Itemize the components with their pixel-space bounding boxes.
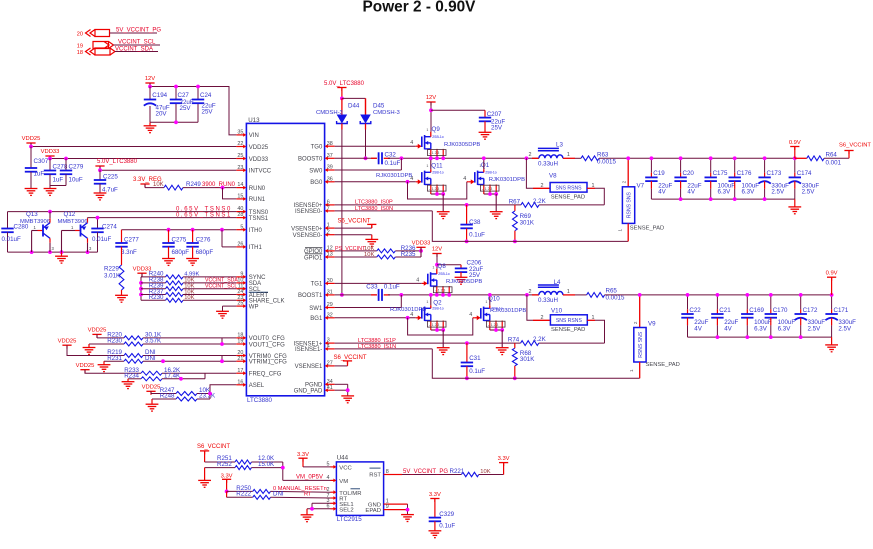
- capacitor C173 330uF 2.5V: [764, 158, 766, 172]
- svg-text:ITH0: ITH0: [249, 228, 263, 234]
- capacitor C176 100uF 6.3V: [734, 158, 736, 172]
- power VDD25 vout cfg: [92, 333, 101, 335]
- wire GND EPAD u44: [388, 503, 408, 505]
- wire PGND GND_PAD: [335, 383, 348, 385]
- net BOOST1 wire: [335, 294, 377, 296]
- svg-text:PS_VCCINT: PS_VCCINT: [335, 246, 366, 252]
- diode D44 CMDSH-3: [337, 98, 348, 129]
- pin 4 VM U44: [331, 479, 335, 481]
- svg-text:1: 1: [618, 229, 623, 232]
- wire vout1 bus: [605, 294, 832, 296]
- svg-text:VDD25: VDD25: [76, 363, 95, 369]
- power 12V input: [145, 82, 154, 84]
- svg-text:2.2K: 2.2K: [533, 336, 547, 343]
- sense resistor V9: [639, 295, 641, 328]
- svg-text:LTC3880: LTC3880: [247, 397, 273, 404]
- svg-text:VTRIM1_CFG: VTRIM1_CFG: [249, 360, 287, 366]
- pin 21 VTRIM1_CFG: [236, 360, 244, 362]
- svg-text:RJK0301DPB: RJK0301DPB: [390, 307, 426, 313]
- inductor L3 0.33uH: [532, 157, 539, 159]
- svg-text:TG0: TG0: [311, 145, 323, 151]
- svg-text:U13: U13: [248, 117, 260, 124]
- ground WP pin: [223, 305, 237, 307]
- svg-text:28: 28: [237, 212, 243, 218]
- svg-text:1uF: 1uF: [53, 177, 64, 184]
- svg-text:SNS RSNS: SNS RSNS: [556, 185, 583, 191]
- resistor R67 2.2K: [521, 203, 539, 208]
- svg-text:C32: C32: [385, 152, 397, 159]
- ground 12V caps: [149, 122, 151, 126]
- svg-text:31: 31: [327, 290, 333, 296]
- svg-text:301K: 301K: [520, 220, 535, 227]
- svg-text:C176: C176: [737, 170, 752, 177]
- net TG1 wire: [335, 282, 422, 284]
- svg-text:C225: C225: [103, 173, 118, 180]
- svg-text:C329: C329: [439, 511, 454, 518]
- pin 20 VTRIM0_CFG: [236, 355, 244, 357]
- svg-text:C21: C21: [719, 307, 731, 314]
- resistor R250: [227, 490, 253, 492]
- capacitor C172 330uF 2.5V: [800, 295, 802, 309]
- svg-text:36: 36: [327, 176, 333, 182]
- svg-text:R252: R252: [217, 461, 232, 468]
- wire D44 to BOOST1: [341, 130, 343, 295]
- pin 29 SW1: [327, 307, 335, 309]
- svg-text:VDD33: VDD33: [41, 149, 60, 155]
- svg-text:SENSE_PAD: SENSE_PAD: [646, 362, 680, 368]
- svg-text:R229: R229: [104, 265, 119, 272]
- capacitor C32 0.1uF: [379, 152, 382, 164]
- svg-text:0.65V_TSNS1: 0.65V_TSNS1: [176, 212, 232, 218]
- resistor R68 301K: [514, 343, 516, 348]
- capacitor C277 3.3nF: [121, 230, 123, 243]
- wire 12V to Q9 drain: [430, 102, 432, 132]
- net TSNS1 wire: [88, 217, 237, 219]
- resistor R251 12.0K: [205, 461, 235, 463]
- svg-text:10uF: 10uF: [69, 177, 83, 184]
- pin 18 VOUT0_CFG: [236, 337, 244, 339]
- svg-text:V9: V9: [648, 321, 656, 328]
- net GPIO0 wire PS_VCCINT: [335, 250, 377, 252]
- svg-text:ASEL: ASEL: [249, 383, 265, 389]
- op-amp U13 LTC3880 box: [246, 123, 324, 395]
- net TSNS0 wire: [8, 211, 237, 213]
- capacitor C307 1uF: [30, 147, 32, 169]
- power VDD33 gpio pullup: [416, 246, 425, 248]
- ground R229: [115, 295, 128, 302]
- pin 5 VCC U44: [331, 466, 335, 468]
- transistor Q12 MMBT3906: [58, 211, 93, 252]
- svg-text:VDD25: VDD25: [88, 328, 107, 334]
- svg-text:0.1uF: 0.1uF: [469, 231, 485, 238]
- wire BG1 to Q10 gate: [408, 318, 473, 335]
- pin 41 GND_PAD: [327, 389, 335, 391]
- pin 8 RST U44: [384, 474, 388, 476]
- svg-text:Q11: Q11: [431, 162, 443, 169]
- resistor R236 10K: [377, 249, 396, 253]
- wire VDD33 pullup rail: [140, 277, 142, 300]
- wire 12V to C206: [437, 264, 461, 266]
- pin 36 BG0: [327, 181, 335, 183]
- svg-text:301K: 301K: [520, 356, 535, 363]
- svg-text:R63: R63: [597, 151, 609, 158]
- svg-text:0.01uF: 0.01uF: [2, 236, 21, 243]
- svg-text:C19: C19: [653, 170, 665, 177]
- svg-text:BG0: BG0: [310, 180, 323, 186]
- svg-text:S6_VCCINT: S6_VCCINT: [333, 355, 366, 361]
- wire V10 branch: [527, 295, 533, 320]
- resistor R234 17.4K: [128, 378, 141, 380]
- transistor Q8: [416, 263, 482, 297]
- svg-text:R64: R64: [826, 152, 838, 159]
- svg-text:2SB-1o: 2SB-1o: [432, 135, 443, 139]
- pin 39 SW0: [327, 169, 335, 171]
- svg-text:R74: R74: [508, 337, 520, 344]
- wire asel tie: [210, 385, 236, 399]
- svg-text:22: 22: [237, 141, 243, 147]
- wire L4 to R65: [575, 294, 587, 296]
- svg-text:1: 1: [432, 265, 434, 269]
- wire boost diode feed: [342, 97, 366, 99]
- pin 25 VDD33: [236, 158, 244, 160]
- svg-text:VCC: VCC: [339, 466, 352, 472]
- svg-text:13: 13: [327, 252, 333, 258]
- svg-text:R230: R230: [107, 338, 122, 345]
- svg-text:Q9: Q9: [432, 126, 441, 133]
- pin 10 SDA: [236, 282, 244, 284]
- wire SW0 pin jog: [400, 158, 402, 170]
- pin 1 GND U44: [384, 503, 388, 505]
- pin 15 RUN1: [236, 198, 244, 200]
- svg-text:0.01uF: 0.01uF: [92, 236, 111, 243]
- svg-text:2: 2: [529, 152, 532, 158]
- svg-text:VOUT1_CFG: VOUT1_CFG: [249, 342, 285, 348]
- svg-text:C22: C22: [689, 307, 701, 314]
- resistor R219 DNI: [67, 345, 124, 355]
- svg-text:RJK0301DPB: RJK0301DPB: [376, 173, 412, 179]
- ground VSENSE0-: [371, 235, 373, 240]
- ground C329: [429, 531, 442, 538]
- svg-text:Q12: Q12: [64, 211, 76, 218]
- svg-text:SW1: SW1: [309, 306, 323, 312]
- wire SW1 pin jog: [400, 295, 402, 308]
- resistor R237 10K: [141, 294, 166, 296]
- wire IS0N kelvin bus: [432, 211, 628, 242]
- svg-text:R222: R222: [236, 491, 251, 498]
- svg-text:3.3V: 3.3V: [297, 452, 309, 458]
- resistor R249 10K: [144, 184, 146, 188]
- svg-text:18: 18: [237, 333, 243, 339]
- svg-text:VCCINT_SCL: VCCINT_SCL: [205, 284, 237, 290]
- wire vout0 cap bank bottom bus: [651, 198, 794, 200]
- svg-text:←1 2 3: ←1 2 3: [428, 151, 439, 155]
- power VDD25 freq cfg: [80, 369, 89, 371]
- svg-text:R230: R230: [149, 294, 164, 301]
- sense pad V10: [550, 315, 587, 325]
- pin 12 GPIO0: [327, 250, 335, 252]
- svg-text:Q2: Q2: [433, 300, 442, 307]
- power VDD33 pullups: [137, 272, 146, 274]
- svg-text:23: 23: [237, 165, 243, 171]
- svg-text:VSENSE0+: VSENSE0+: [291, 226, 323, 232]
- resistor R220 30.1K: [96, 334, 98, 338]
- svg-text:BOOST1: BOOST1: [298, 293, 323, 299]
- svg-text:VDD25: VDD25: [58, 338, 77, 344]
- resistor R233 16.2K: [85, 370, 141, 374]
- capacitor C27 22uF 25V: [170, 100, 182, 104]
- svg-text:680pF: 680pF: [172, 249, 190, 256]
- svg-text:1uF: 1uF: [34, 171, 45, 178]
- pin 31 BOOST1: [327, 294, 335, 296]
- pin 28 TSNS1: [236, 217, 244, 219]
- svg-text:35: 35: [237, 130, 243, 136]
- capacitor C19 22uF 4V: [650, 158, 652, 172]
- connector pin 19 VCCINT_SCL: [77, 40, 160, 50]
- svg-text:2.5V: 2.5V: [771, 189, 785, 196]
- pin 27 VSENSE1: [327, 365, 335, 367]
- svg-text:41: 41: [327, 385, 333, 391]
- svg-text:R235: R235: [401, 251, 416, 258]
- wire ITH1 tie: [221, 230, 223, 247]
- pin 5 ITH0: [236, 229, 244, 231]
- transistor Q11: [376, 156, 450, 218]
- svg-text:LTC3880_IS0N: LTC3880_IS0N: [355, 206, 393, 212]
- wire vout1 cap bank bottom bus: [688, 336, 832, 338]
- svg-text:32: 32: [327, 312, 333, 318]
- svg-text:VM_0P5V: VM_0P5V: [296, 475, 323, 481]
- sense pad V8: [550, 183, 587, 193]
- svg-text:37: 37: [327, 153, 333, 159]
- svg-text:CMDSH-3: CMDSH-3: [373, 110, 401, 116]
- svg-text:10K: 10K: [364, 252, 374, 258]
- svg-text:19: 19: [77, 44, 83, 50]
- svg-text:C275: C275: [172, 237, 187, 244]
- svg-text:C274: C274: [102, 223, 117, 230]
- resistor R240 4.99K: [141, 276, 166, 278]
- svg-text:CMDSH-3: CMDSH-3: [316, 110, 344, 116]
- svg-text:RJK0305DPB: RJK0305DPB: [444, 142, 480, 148]
- svg-text:R234: R234: [124, 372, 139, 379]
- pin 24 ALERT: [236, 294, 244, 296]
- ground R252: [204, 468, 206, 481]
- svg-text:V8: V8: [549, 173, 557, 180]
- svg-text:7: 7: [327, 206, 330, 212]
- net GPIO1 wire: [335, 256, 377, 258]
- svg-text:2: 2: [541, 183, 544, 189]
- resistor R235 10K: [377, 255, 396, 259]
- pin 37 BOOST0: [327, 157, 335, 159]
- svg-text:C31: C31: [469, 355, 481, 362]
- wire BG0 to Q1 gate: [408, 182, 467, 199]
- svg-text:Q13: Q13: [26, 211, 38, 218]
- svg-text:16: 16: [237, 379, 243, 385]
- power 3.3V tol: [222, 478, 231, 480]
- svg-text:LTC3880_IS1N: LTC3880_IS1N: [358, 344, 396, 350]
- svg-text:6.3V: 6.3V: [778, 325, 792, 332]
- svg-text:Q8: Q8: [438, 263, 447, 270]
- power 3.3V rst pullup: [503, 463, 505, 475]
- svg-text:VCCINT_SCL: VCCINT_SCL: [118, 40, 156, 46]
- svg-text:0.33uH: 0.33uH: [538, 160, 558, 167]
- svg-text:25V: 25V: [202, 109, 214, 116]
- svg-text:R231: R231: [107, 355, 122, 362]
- svg-text:S6_VCCINT: S6_VCCINT: [197, 444, 230, 450]
- resistor R230 10K: [141, 299, 166, 301]
- svg-text:D45: D45: [373, 103, 385, 110]
- capacitor C171 330uF 2.5V: [831, 295, 833, 309]
- resistor R248 23.2K: [152, 398, 176, 400]
- pin 3 SEL1 U44: [331, 502, 335, 504]
- power VDD33 rail: [45, 155, 54, 157]
- capacitor C278 1uF: [49, 159, 51, 171]
- svg-text:VM: VM: [339, 479, 348, 485]
- capacitor C21 22uF 4V: [716, 295, 718, 309]
- svg-text:0.0015: 0.0015: [597, 159, 616, 166]
- svg-text:10K: 10K: [153, 182, 164, 188]
- svg-text:2: 2: [633, 321, 638, 324]
- wire VCC u44: [303, 466, 331, 468]
- ground TSNS: [61, 252, 63, 256]
- svg-text:29: 29: [327, 302, 333, 308]
- transistor Q2: [390, 293, 450, 355]
- pin 9 EPAD U44: [384, 509, 388, 511]
- svg-text:S6_VCCINT: S6_VCCINT: [337, 218, 370, 224]
- svg-text:5V_VCCINT_PG: 5V_VCCINT_PG: [116, 28, 161, 34]
- pin 26 ITH1: [236, 246, 244, 248]
- net ISENSE0+ wire: [335, 204, 521, 206]
- resistor R247 10K: [150, 391, 152, 393]
- svg-text:0.9V: 0.9V: [789, 140, 801, 146]
- wire vtrim cfg tie: [221, 356, 223, 362]
- net SW0 node wire: [388, 157, 539, 159]
- svg-text:12V: 12V: [145, 76, 155, 82]
- pin 1 VSENSE0+: [327, 227, 335, 229]
- capacitor C206 22uF 25V: [460, 265, 462, 269]
- wire VM divider tie: [282, 462, 284, 480]
- capacitor C174 330uF 2.5V: [794, 158, 796, 172]
- capacitor C175 100uF 6.3V: [710, 158, 712, 172]
- net BG1 wire: [335, 317, 416, 319]
- svg-text:R221: R221: [450, 468, 465, 475]
- svg-text:4.7uF: 4.7uF: [102, 186, 118, 193]
- svg-text:3.57K: 3.57K: [145, 338, 162, 345]
- svg-text:RJK0301DPB: RJK0301DPB: [490, 308, 526, 314]
- svg-text:2SB-1o: 2SB-1o: [432, 307, 443, 311]
- svg-text:10K: 10K: [364, 246, 374, 252]
- svg-text:4: 4: [327, 344, 330, 350]
- svg-text:25V: 25V: [491, 125, 503, 132]
- svg-text:D44: D44: [348, 103, 360, 110]
- svg-text:C27: C27: [178, 92, 190, 99]
- svg-text:R67: R67: [509, 199, 521, 206]
- ground U44: [401, 515, 414, 522]
- pin 11 SCL: [236, 288, 244, 290]
- svg-text:C276: C276: [196, 237, 211, 244]
- svg-text:C175: C175: [713, 170, 728, 177]
- svg-text:4V: 4V: [724, 325, 732, 332]
- svg-text:5: 5: [327, 462, 330, 468]
- svg-text:C279: C279: [69, 164, 84, 171]
- svg-text:ITH1: ITH1: [249, 245, 263, 251]
- svg-text:17: 17: [237, 368, 243, 374]
- power 12V ch0: [426, 101, 435, 103]
- wire 12V bus to VIN: [150, 83, 236, 135]
- net VSENSE0- wire: [335, 234, 372, 236]
- pin 2 TOL/MR U44: [331, 491, 335, 493]
- pin 4 ISENSE1-: [327, 348, 335, 350]
- svg-text:2.5V: 2.5V: [802, 189, 816, 196]
- svg-text:C20: C20: [683, 170, 695, 177]
- svg-text:C171: C171: [834, 307, 849, 314]
- wire SEL1 SEL2 ground: [312, 502, 331, 504]
- resistor R69 301K: [514, 205, 516, 211]
- svg-text:0.0015: 0.0015: [606, 295, 625, 302]
- svg-text:BG1: BG1: [310, 316, 323, 322]
- capacitor C279 10uF: [65, 159, 67, 171]
- svg-text:30: 30: [327, 278, 333, 284]
- svg-text:←1 2 3: ←1 2 3: [428, 187, 439, 191]
- svg-text:VIN: VIN: [249, 133, 259, 139]
- resistor R230 3.57K: [89, 343, 124, 345]
- svg-text:FREQ_CFG: FREQ_CFG: [249, 372, 282, 378]
- svg-text:GND_PAD: GND_PAD: [294, 389, 323, 395]
- sense resistor V7: [627, 158, 629, 187]
- svg-text:0.1uF: 0.1uF: [469, 368, 485, 375]
- transistor Q9: [410, 126, 480, 160]
- svg-text:27: 27: [327, 361, 333, 367]
- pin 14 RUN0: [236, 187, 244, 189]
- wire D45 to BOOST0: [365, 130, 367, 159]
- wire INTVCC bus: [99, 166, 101, 170]
- svg-text:C307: C307: [34, 158, 49, 165]
- resistor R64 0.001: [795, 157, 807, 159]
- svg-text:2: 2: [541, 315, 544, 321]
- svg-text:C277: C277: [124, 237, 139, 244]
- svg-text:4: 4: [469, 312, 472, 318]
- svg-text:Q1: Q1: [481, 162, 490, 169]
- svg-text:TG1: TG1: [311, 282, 323, 288]
- svg-text:6.3V: 6.3V: [754, 325, 768, 332]
- svg-text:V10: V10: [551, 307, 563, 314]
- op-amp U44 LTC2915 box: [336, 462, 383, 516]
- svg-text:VOUT0_CFG: VOUT0_CFG: [249, 336, 285, 342]
- net BOOST0 wire: [335, 157, 377, 159]
- wire 12V to C207: [431, 109, 485, 111]
- svg-text:SNS RSNS: SNS RSNS: [556, 318, 583, 324]
- wire VDD33 bus: [49, 156, 51, 159]
- svg-text:INTVCC: INTVCC: [249, 169, 272, 175]
- wire VDD25 bus: [30, 143, 32, 147]
- wire 12V cap bottoms: [149, 87, 151, 100]
- ground vout0 bank: [794, 199, 796, 207]
- resistor R231 DNI: [104, 360, 124, 362]
- svg-text:4: 4: [416, 277, 419, 283]
- net BG0 wire: [335, 181, 416, 183]
- svg-text:6.3V: 6.3V: [718, 189, 732, 196]
- svg-text:2SB-1o: 2SB-1o: [485, 171, 496, 175]
- power 0.9V vout1: [827, 276, 836, 278]
- wire freq cfg tie: [204, 373, 206, 379]
- svg-text:SENSE_PAD: SENSE_PAD: [630, 225, 664, 231]
- net VSENSE0+ wire: [335, 227, 372, 229]
- svg-text:TSNS1: TSNS1: [249, 216, 269, 222]
- svg-text:25V: 25V: [180, 105, 192, 112]
- capacitor C329 0.1uF: [429, 518, 441, 522]
- ground R230: [88, 344, 90, 348]
- svg-text:VDD25: VDD25: [22, 136, 41, 142]
- svg-text:RSNS SNS: RSNS SNS: [627, 191, 633, 218]
- svg-text:C172: C172: [803, 307, 818, 314]
